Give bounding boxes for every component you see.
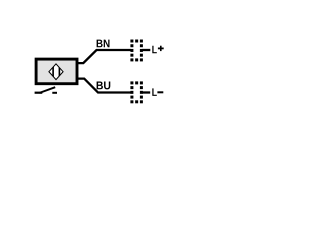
terminal box L+ (dashed): [130, 40, 143, 62]
label L+: [152, 46, 163, 54]
wire BU (bottom): [78, 79, 131, 93]
proximity sensor symbol (diamond with two bars): [49, 62, 63, 82]
terminal box L- (dashed): [130, 81, 143, 103]
label L-: [152, 88, 163, 96]
label BU: [97, 82, 111, 90]
wire stub to L+: [142, 49, 150, 51]
label BN: [97, 40, 110, 48]
switch contact: [35, 87, 57, 93]
sensor body: [36, 59, 77, 84]
wire stub to L-: [142, 91, 150, 93]
wire BN (top): [78, 50, 131, 63]
